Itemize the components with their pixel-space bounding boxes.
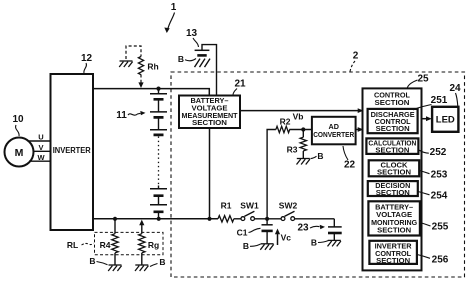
- svg-text:254: 254: [431, 191, 448, 202]
- svg-text:W: W: [37, 153, 45, 162]
- svg-text:INVERTER: INVERTER: [53, 146, 91, 155]
- svg-text:SECTION: SECTION: [376, 188, 410, 197]
- svg-text:2: 2: [353, 51, 359, 62]
- svg-text:RL: RL: [67, 240, 78, 250]
- svg-text:SECTION: SECTION: [376, 256, 410, 265]
- svg-text:252: 252: [430, 147, 447, 158]
- svg-text:R1: R1: [221, 201, 232, 211]
- svg-text:Rg: Rg: [148, 240, 159, 250]
- svg-text:22: 22: [344, 160, 356, 171]
- svg-text:V: V: [38, 143, 43, 152]
- svg-text:SECTION: SECTION: [377, 225, 411, 234]
- svg-text:B: B: [159, 257, 165, 267]
- svg-text:256: 256: [432, 255, 449, 266]
- svg-text:Rh: Rh: [147, 62, 158, 72]
- svg-text:U: U: [38, 133, 43, 142]
- svg-text:R4: R4: [100, 240, 111, 250]
- svg-text:SW2: SW2: [279, 201, 298, 211]
- svg-text:SECTION: SECTION: [192, 118, 227, 127]
- svg-text:21: 21: [234, 79, 246, 90]
- svg-text:SW1: SW1: [240, 201, 259, 211]
- svg-text:B: B: [243, 241, 249, 251]
- svg-text:B: B: [89, 256, 95, 266]
- svg-text:M: M: [15, 147, 24, 159]
- svg-text:SECTION: SECTION: [375, 98, 410, 107]
- svg-text:B: B: [311, 238, 317, 248]
- svg-text:13: 13: [186, 28, 198, 39]
- svg-text:1: 1: [171, 2, 177, 13]
- svg-text:23: 23: [297, 223, 309, 234]
- svg-text:B: B: [317, 151, 323, 161]
- svg-text:Vb: Vb: [293, 112, 304, 122]
- svg-text:11: 11: [116, 110, 127, 121]
- svg-text:253: 253: [431, 170, 448, 181]
- svg-text:C1: C1: [237, 228, 248, 238]
- svg-text:CONVERTER: CONVERTER: [313, 130, 355, 139]
- svg-text:SECTION: SECTION: [375, 145, 409, 154]
- svg-text:24: 24: [449, 83, 461, 94]
- svg-text:SECTION: SECTION: [377, 168, 411, 177]
- svg-text:251: 251: [431, 95, 448, 106]
- svg-text:25: 25: [417, 74, 429, 85]
- svg-text:255: 255: [432, 222, 449, 233]
- svg-text:R2: R2: [280, 117, 291, 127]
- svg-text:LED: LED: [436, 115, 455, 126]
- svg-text:10: 10: [12, 114, 24, 125]
- svg-text:B: B: [178, 54, 184, 64]
- svg-text:12: 12: [81, 53, 93, 64]
- svg-text:Vc: Vc: [281, 233, 292, 243]
- svg-text:R3: R3: [287, 145, 298, 155]
- svg-text:SECTION: SECTION: [376, 124, 410, 133]
